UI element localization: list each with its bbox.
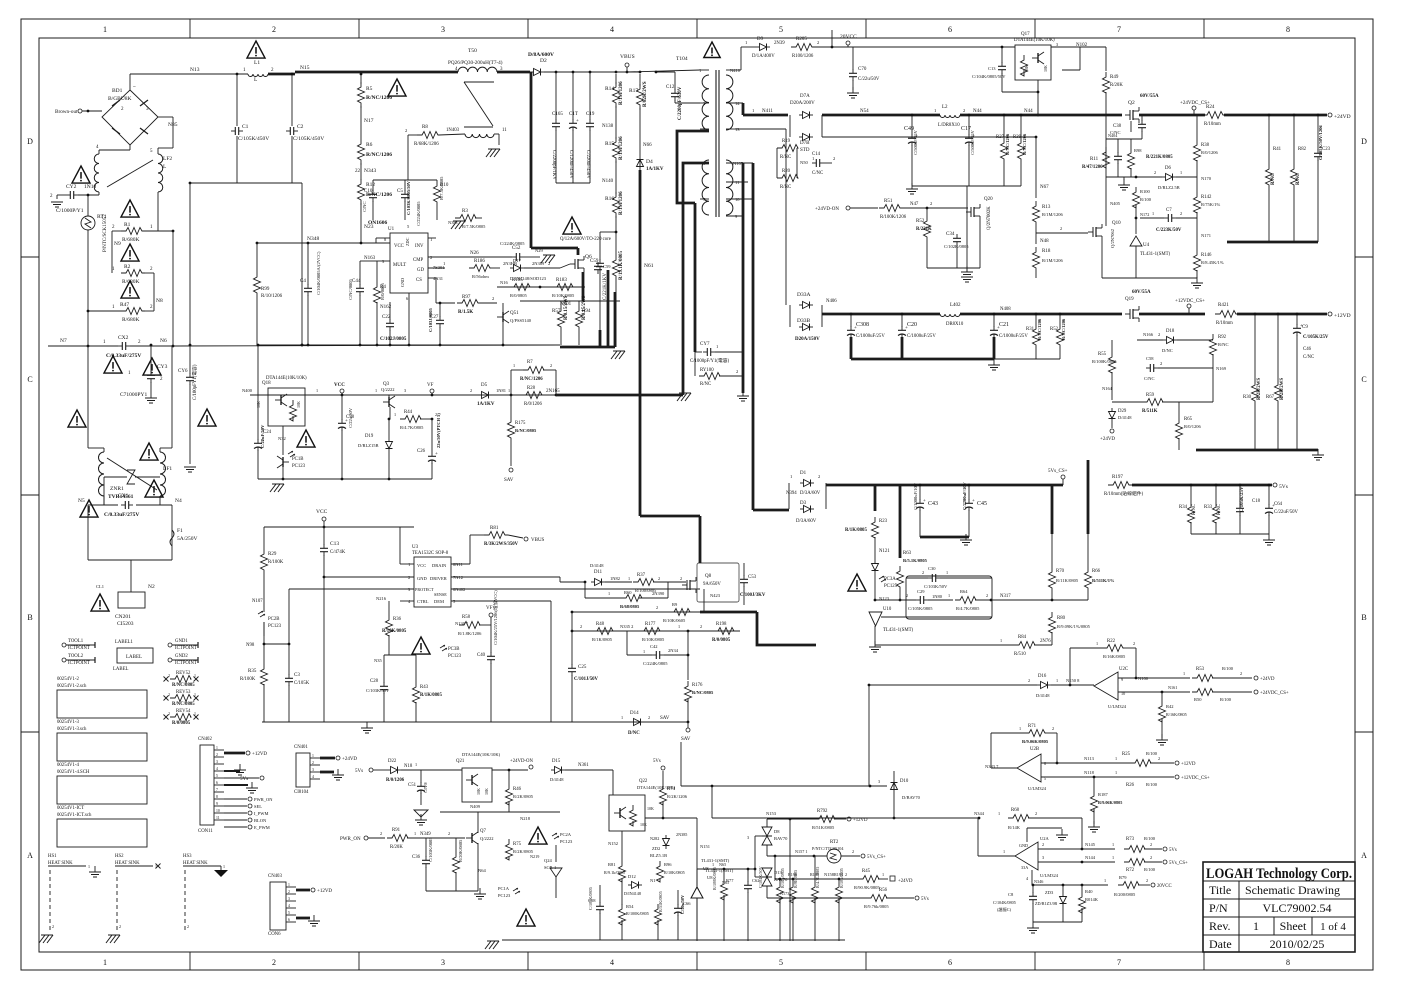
svg-text:R/16K/0805: R/16K/0805 bbox=[1103, 654, 1126, 659]
svg-text:R75: R75 bbox=[513, 842, 522, 847]
svg-text:2: 2 bbox=[187, 924, 189, 929]
svg-text:2: 2 bbox=[1146, 878, 1148, 883]
svg-text:VF: VF bbox=[486, 606, 493, 611]
svg-text:R49: R49 bbox=[1110, 75, 1119, 80]
svg-text:ZD/R1Z3.9B: ZD/R1Z3.9B bbox=[1035, 901, 1057, 906]
svg-text:1: 1 bbox=[882, 872, 884, 877]
svg-text:R18: R18 bbox=[1042, 249, 1051, 254]
svg-text:Q20: Q20 bbox=[984, 197, 993, 202]
svg-text:DTA144E(10K/10K): DTA144E(10K/10K) bbox=[1014, 38, 1055, 43]
svg-text:CY2: CY2 bbox=[66, 184, 77, 190]
svg-text:R/10K/0605: R/10K/0605 bbox=[663, 618, 686, 623]
svg-text:ZD2: ZD2 bbox=[652, 846, 660, 851]
svg-text:RLZ5.1B: RLZ5.1B bbox=[650, 853, 667, 858]
svg-text:D/4148: D/4148 bbox=[590, 563, 604, 568]
svg-text:R39: R39 bbox=[1013, 135, 1022, 140]
svg-text:C/100pFY1(電容): C/100pFY1(電容) bbox=[191, 364, 198, 400]
svg-text:6: 6 bbox=[1044, 761, 1046, 766]
svg-text:R/11K/0805: R/11K/0805 bbox=[1056, 578, 1079, 583]
svg-text:R24: R24 bbox=[1206, 105, 1215, 110]
svg-text:R57: R57 bbox=[552, 309, 561, 314]
svg-text:N216: N216 bbox=[376, 596, 387, 601]
svg-text:+24VDC_CS+: +24VDC_CS+ bbox=[1260, 691, 1289, 696]
svg-text:R98: R98 bbox=[1134, 148, 1142, 153]
svg-text:R6: R6 bbox=[366, 142, 373, 148]
svg-text:R/100K: R/100K bbox=[268, 560, 284, 565]
svg-text:10K: 10K bbox=[640, 822, 647, 827]
svg-text:R/9.1k/0805: R/9.1k/0805 bbox=[604, 870, 625, 875]
svg-text:+12VD: +12VD bbox=[1334, 313, 1351, 319]
svg-text:N9: N9 bbox=[114, 241, 121, 247]
svg-text:R/5.1K/0805: R/5.1K/0805 bbox=[903, 558, 928, 563]
svg-text:ON1606: ON1606 bbox=[368, 220, 388, 226]
svg-text:D/3A/60V: D/3A/60V bbox=[800, 491, 821, 496]
svg-text:1: 1 bbox=[415, 762, 417, 767]
svg-text:1N10: 1N10 bbox=[84, 184, 96, 190]
svg-text:2: 2 bbox=[1158, 332, 1160, 337]
svg-text:U2C: U2C bbox=[1119, 667, 1128, 672]
svg-text:R/0/0805: R/0/0805 bbox=[380, 282, 385, 300]
svg-text:C/103K/50V: C/103K/50V bbox=[924, 584, 948, 589]
svg-text:SAV: SAV bbox=[660, 716, 670, 721]
svg-text:R/14K: R/14K bbox=[1008, 825, 1021, 830]
svg-text:ICTPOINT: ICTPOINT bbox=[68, 661, 90, 666]
svg-text:VCC: VCC bbox=[417, 563, 426, 568]
svg-text:N394: N394 bbox=[786, 491, 797, 496]
svg-text:R59: R59 bbox=[1146, 393, 1155, 398]
svg-text:R/680K: R/680K bbox=[122, 317, 139, 323]
svg-text:C58: C58 bbox=[1146, 356, 1154, 361]
svg-text:R43: R43 bbox=[420, 685, 429, 690]
svg-text:5Vs_CS+: 5Vs_CS+ bbox=[867, 855, 886, 860]
svg-text:R/100: R/100 bbox=[1146, 751, 1158, 756]
svg-text:00254V1-ICT.sch: 00254V1-ICT.sch bbox=[57, 813, 92, 818]
svg-text:R80: R80 bbox=[1057, 616, 1066, 621]
svg-text:R/NC: R/NC bbox=[1271, 173, 1276, 185]
svg-text:HEAT SINK: HEAT SINK bbox=[115, 861, 140, 866]
svg-text:9A/650V: 9A/650V bbox=[703, 582, 721, 587]
svg-text:C/101J/50V: C/101J/50V bbox=[574, 677, 599, 682]
svg-text:N61: N61 bbox=[644, 263, 654, 269]
svg-text:R11: R11 bbox=[1090, 157, 1099, 162]
svg-text:Q17: Q17 bbox=[1021, 32, 1030, 37]
svg-text:5Vs_CS+: 5Vs_CS+ bbox=[1169, 861, 1188, 866]
svg-text:R47: R47 bbox=[120, 302, 129, 308]
svg-text:C/NC: C/NC bbox=[1144, 376, 1155, 381]
svg-text:2: 2 bbox=[700, 624, 702, 629]
svg-text:3: 3 bbox=[1056, 42, 1058, 47]
svg-text:U3: U3 bbox=[412, 545, 419, 550]
svg-text:R205: R205 bbox=[796, 37, 807, 42]
svg-text:C23: C23 bbox=[1322, 147, 1331, 152]
svg-text:4N31: 4N31 bbox=[433, 276, 443, 281]
svg-text:CI5203: CI5203 bbox=[117, 621, 134, 627]
svg-text:2: 2 bbox=[168, 692, 170, 697]
svg-text:5: 5 bbox=[779, 25, 783, 34]
svg-text:R23: R23 bbox=[879, 519, 888, 524]
svg-text:D8: D8 bbox=[774, 829, 780, 834]
svg-text:D20A/200V: D20A/200V bbox=[790, 101, 815, 106]
svg-text:PQ26/PQ30-200uH(T7-4): PQ26/PQ30-200uH(T7-4) bbox=[448, 59, 503, 66]
svg-text:C43: C43 bbox=[928, 501, 938, 507]
svg-text:D/NC: D/NC bbox=[628, 731, 640, 736]
svg-text:B: B bbox=[27, 613, 32, 622]
svg-text:PC123: PC123 bbox=[292, 464, 306, 469]
svg-text:D17: D17 bbox=[513, 258, 521, 263]
svg-text:2: 2 bbox=[1133, 641, 1135, 646]
svg-text:+12VD: +12VD bbox=[252, 752, 267, 757]
svg-text:1: 1 bbox=[513, 363, 515, 368]
svg-text:R014K: R014K bbox=[1085, 897, 1099, 902]
svg-text:TOOL1: TOOL1 bbox=[68, 639, 84, 644]
svg-text:D4: D4 bbox=[646, 159, 653, 165]
svg-text:N409: N409 bbox=[470, 804, 481, 809]
svg-text:1: 1 bbox=[312, 754, 314, 758]
svg-text:D/NC: D/NC bbox=[1162, 348, 1173, 353]
svg-text:R/511K: R/511K bbox=[1142, 409, 1158, 414]
svg-text:10: 10 bbox=[735, 197, 740, 202]
svg-text:R/75K/1%: R/75K/1% bbox=[1201, 202, 1221, 207]
svg-text:R29: R29 bbox=[268, 552, 277, 557]
svg-text:Q22: Q22 bbox=[639, 779, 648, 784]
svg-text:1: 1 bbox=[608, 591, 610, 596]
svg-text:2: 2 bbox=[405, 128, 407, 133]
svg-text:1: 1 bbox=[790, 474, 792, 479]
svg-text:L1: L1 bbox=[254, 60, 260, 66]
svg-text:N171: N171 bbox=[1201, 233, 1211, 238]
svg-text:R/100: R/100 bbox=[1222, 666, 1234, 671]
svg-text:7: 7 bbox=[216, 788, 218, 792]
svg-text:R17: R17 bbox=[629, 88, 638, 94]
svg-text:VF: VF bbox=[427, 383, 434, 388]
svg-text:3: 3 bbox=[441, 958, 445, 967]
svg-text:R70: R70 bbox=[1056, 569, 1065, 574]
svg-text:1: 1 bbox=[414, 831, 416, 836]
svg-text:2: 2 bbox=[492, 296, 494, 301]
svg-text:C/120uF/450V: C/120uF/450V bbox=[568, 150, 573, 179]
svg-text:2: 2 bbox=[168, 673, 170, 678]
svg-text:2: 2 bbox=[852, 849, 854, 854]
svg-text:D1: D1 bbox=[800, 471, 807, 476]
svg-text:+24VD: +24VD bbox=[1334, 114, 1351, 120]
svg-text:VLC79002.54: VLC79002.54 bbox=[1263, 901, 1332, 915]
svg-text:6: 6 bbox=[288, 918, 290, 922]
svg-text:2: 2 bbox=[119, 924, 121, 929]
svg-text:C26: C26 bbox=[417, 449, 426, 454]
svg-text:R5: R5 bbox=[366, 86, 373, 92]
svg-text:1: 1 bbox=[699, 68, 701, 73]
svg-text:R27: R27 bbox=[996, 135, 1005, 140]
svg-text:N47: N47 bbox=[910, 202, 919, 207]
svg-text:PC123: PC123 bbox=[268, 624, 282, 629]
svg-text:R792: R792 bbox=[817, 809, 828, 814]
svg-text:D/4148: D/4148 bbox=[1118, 415, 1132, 420]
svg-text:C/224K/0805: C/224K/0805 bbox=[500, 241, 525, 246]
svg-text:Q18: Q18 bbox=[262, 381, 271, 386]
svg-text:INV: INV bbox=[415, 244, 424, 249]
svg-text:R25: R25 bbox=[1122, 752, 1131, 757]
svg-text:N67: N67 bbox=[1040, 185, 1049, 190]
svg-text:REV52: REV52 bbox=[176, 671, 191, 676]
svg-text:2: 2 bbox=[1035, 811, 1037, 816]
svg-text:R91: R91 bbox=[392, 828, 401, 833]
svg-text:1: 1 bbox=[1253, 919, 1259, 933]
svg-text:R/510: R/510 bbox=[1014, 652, 1026, 657]
svg-text:1: 1 bbox=[1183, 671, 1185, 676]
svg-text:PC3B: PC3B bbox=[448, 647, 459, 652]
svg-text:CX2: CX2 bbox=[118, 335, 129, 341]
svg-text:5Vs: 5Vs bbox=[355, 769, 363, 774]
svg-text:N343: N343 bbox=[364, 168, 376, 174]
svg-text:2: 2 bbox=[1042, 842, 1044, 847]
svg-text:1: 1 bbox=[375, 388, 377, 393]
svg-text:1: 1 bbox=[1152, 211, 1154, 216]
svg-text:C71000PY1: C71000PY1 bbox=[120, 392, 147, 398]
svg-text:2: 2 bbox=[1060, 226, 1062, 231]
svg-text:1: 1 bbox=[1180, 170, 1182, 175]
svg-text:C36: C36 bbox=[412, 855, 421, 860]
svg-text:C9: C9 bbox=[1302, 325, 1308, 330]
svg-text:D/1A/400V: D/1A/400V bbox=[752, 54, 775, 59]
svg-text:00254V1-2: 00254V1-2 bbox=[57, 677, 79, 682]
svg-text:C/1000uF/25V: C/1000uF/25V bbox=[907, 334, 936, 339]
svg-text:N405: N405 bbox=[1110, 201, 1121, 206]
svg-text:R42: R42 bbox=[1166, 704, 1174, 709]
svg-text:C/105K/450V: C/105K/450V bbox=[293, 136, 324, 142]
svg-text:R/4.7K/0805: R/4.7K/0805 bbox=[400, 425, 424, 430]
svg-text:N15: N15 bbox=[300, 65, 310, 71]
svg-text:10K: 10K bbox=[1043, 65, 1048, 72]
svg-text:C20: C20 bbox=[907, 322, 917, 328]
svg-text:N121: N121 bbox=[879, 549, 890, 554]
svg-text:R53: R53 bbox=[1196, 667, 1205, 672]
svg-text:Q/2N7002K: Q/2N7002K bbox=[987, 206, 992, 230]
svg-text:1: 1 bbox=[1019, 726, 1021, 731]
svg-text:1: 1 bbox=[103, 25, 107, 34]
svg-text:P/N: P/N bbox=[1209, 901, 1228, 915]
svg-text:2: 2 bbox=[550, 363, 552, 368]
svg-text:CY7: CY7 bbox=[700, 342, 710, 347]
svg-text:1N403: 1N403 bbox=[446, 128, 460, 133]
svg-text:R/2K/2WS: R/2K/2WS bbox=[1280, 378, 1285, 400]
svg-text:10K: 10K bbox=[476, 788, 481, 795]
svg-text:R/2K/1206: R/2K/1206 bbox=[667, 794, 688, 799]
svg-text:R/221K: R/221K bbox=[916, 227, 932, 232]
svg-text:CI8104: CI8104 bbox=[294, 790, 309, 795]
svg-text:Q21: Q21 bbox=[456, 759, 465, 764]
svg-text:C13: C13 bbox=[988, 66, 996, 71]
svg-text:C/105K/450V: C/105K/450V bbox=[238, 136, 269, 142]
svg-text:CS: CS bbox=[416, 278, 422, 283]
svg-text:CN402: CN402 bbox=[198, 737, 212, 742]
svg-text:1: 1 bbox=[948, 593, 950, 598]
svg-text:2N385: 2N385 bbox=[676, 832, 687, 837]
svg-text:3: 3 bbox=[441, 25, 445, 34]
svg-text:R/100K/0805: R/100K/0805 bbox=[712, 867, 717, 890]
svg-text:+24VD: +24VD bbox=[898, 879, 913, 884]
svg-text:R/47/1206: R/47/1206 bbox=[1082, 165, 1103, 170]
svg-text:R/100: R/100 bbox=[1144, 836, 1156, 841]
svg-text:C/103K/0805: C/103K/0805 bbox=[428, 837, 433, 862]
svg-text:R/51K/0805: R/51K/0805 bbox=[658, 891, 663, 912]
svg-text:R46: R46 bbox=[513, 787, 522, 792]
svg-text:D3: D3 bbox=[800, 501, 807, 506]
svg-text:N150 8: N150 8 bbox=[1066, 678, 1080, 683]
svg-text:R48: R48 bbox=[596, 622, 605, 627]
svg-text:5Vs: 5Vs bbox=[1169, 848, 1177, 853]
svg-text:N118: N118 bbox=[1084, 770, 1095, 775]
svg-text:R/0/1206: R/0/1206 bbox=[1201, 150, 1219, 155]
svg-text:L402: L402 bbox=[950, 303, 961, 308]
svg-text:ZD3: ZD3 bbox=[1045, 890, 1054, 895]
svg-text:PROTECT: PROTECT bbox=[415, 587, 434, 592]
svg-text:R198: R198 bbox=[716, 622, 727, 627]
svg-text:R/NC/0805: R/NC/0805 bbox=[172, 683, 195, 688]
svg-text:7: 7 bbox=[1117, 958, 1121, 967]
svg-text:Title: Title bbox=[1209, 883, 1231, 897]
svg-text:C59: C59 bbox=[603, 264, 611, 269]
svg-text:VBUS: VBUS bbox=[531, 538, 545, 543]
svg-text:LF1: LF1 bbox=[163, 466, 172, 472]
svg-text:1: 1 bbox=[408, 562, 410, 567]
svg-text:1: 1 bbox=[998, 811, 1000, 816]
svg-text:R8: R8 bbox=[422, 125, 428, 130]
svg-text:P/NTC/SCK15057: P/NTC/SCK15057 bbox=[103, 214, 108, 252]
svg-text:R/10K/0805: R/10K/0805 bbox=[664, 870, 685, 875]
svg-text:CX1: CX1 bbox=[118, 493, 129, 499]
svg-text:N170: N170 bbox=[1201, 176, 1212, 181]
svg-text:2: 2 bbox=[658, 576, 660, 581]
svg-text:C13: C13 bbox=[330, 541, 339, 547]
svg-text:N113: N113 bbox=[1084, 756, 1095, 761]
svg-text:R/NC: R/NC bbox=[1296, 173, 1301, 185]
svg-text:1N81: 1N81 bbox=[496, 388, 506, 393]
svg-text:C/104K/0805: C/104K/0805 bbox=[993, 900, 1016, 905]
svg-text:2: 2 bbox=[430, 255, 432, 260]
svg-text:R/100: R/100 bbox=[1144, 867, 1156, 872]
svg-text:2: 2 bbox=[1160, 361, 1162, 366]
svg-text:R/10/1206: R/10/1206 bbox=[261, 294, 283, 299]
svg-text:D19: D19 bbox=[365, 434, 374, 439]
svg-text:C/1000uF/25V: C/1000uF/25V bbox=[999, 334, 1028, 339]
svg-text:GND: GND bbox=[417, 576, 427, 581]
svg-text:N13: N13 bbox=[190, 67, 200, 73]
svg-text:D33B: D33B bbox=[797, 318, 810, 324]
svg-text:1A/1KV: 1A/1KV bbox=[477, 402, 495, 407]
svg-text:CN403: CN403 bbox=[268, 874, 282, 879]
svg-text:8: 8 bbox=[1286, 958, 1290, 967]
svg-text:R/10mm: R/10mm bbox=[1216, 321, 1233, 326]
svg-text:R/100: R/100 bbox=[1140, 197, 1152, 202]
svg-text:3: 3 bbox=[1042, 855, 1044, 860]
svg-text:U2B: U2B bbox=[1030, 747, 1039, 752]
svg-text:R/68K/1206: R/68K/1206 bbox=[414, 142, 439, 147]
svg-text:1: 1 bbox=[1003, 849, 1005, 854]
svg-text:C/105K: C/105K bbox=[294, 681, 310, 686]
svg-text:1A/1KV: 1A/1KV bbox=[646, 167, 664, 172]
svg-text:C/224K/0805: C/224K/0805 bbox=[643, 661, 668, 666]
svg-text:R54: R54 bbox=[626, 904, 634, 909]
svg-text:11: 11 bbox=[502, 128, 507, 133]
svg-text:R/7.5K/0805: R/7.5K/0805 bbox=[439, 176, 444, 200]
svg-text:N317: N317 bbox=[1000, 594, 1011, 599]
svg-text:6N402: 6N402 bbox=[453, 587, 465, 592]
svg-text:10K: 10K bbox=[1024, 65, 1029, 72]
svg-text:C/104K/25V/1206(增加VCC): C/104K/25V/1206(增加VCC) bbox=[492, 590, 499, 645]
svg-text:R1: R1 bbox=[124, 222, 131, 228]
svg-text:N218: N218 bbox=[520, 816, 531, 821]
svg-text:R/3K/2WS/350V: R/3K/2WS/350V bbox=[484, 542, 519, 547]
svg-text:C/105K/25V: C/105K/25V bbox=[1303, 335, 1329, 340]
svg-text:Q/PSS5140: Q/PSS5140 bbox=[510, 318, 532, 323]
svg-text:R/100: R/100 bbox=[1220, 697, 1232, 702]
svg-text:N411: N411 bbox=[762, 109, 773, 114]
svg-text:U/LM324: U/LM324 bbox=[1028, 786, 1047, 791]
svg-text:3: 3 bbox=[216, 760, 218, 764]
svg-text:2: 2 bbox=[580, 624, 582, 629]
svg-text:D16: D16 bbox=[1038, 674, 1047, 679]
svg-text:D18: D18 bbox=[1166, 329, 1175, 334]
svg-text:1N80: 1N80 bbox=[932, 594, 943, 599]
svg-text:N2: N2 bbox=[148, 584, 155, 590]
svg-text:R65: R65 bbox=[1184, 417, 1193, 422]
svg-text:1: 1 bbox=[194, 692, 196, 697]
svg-text:R/20K/0805: R/20K/0805 bbox=[458, 839, 463, 862]
svg-text:CON11: CON11 bbox=[198, 829, 213, 834]
svg-text:2: 2 bbox=[52, 924, 54, 929]
svg-text:HS1: HS1 bbox=[48, 854, 57, 859]
svg-text:D/BAV70: D/BAV70 bbox=[902, 795, 921, 800]
svg-text:1: 1 bbox=[752, 108, 754, 113]
svg-text:R81: R81 bbox=[608, 862, 616, 867]
svg-text:2: 2 bbox=[1150, 855, 1152, 860]
svg-text:Q2: Q2 bbox=[1128, 100, 1135, 106]
svg-text:N406: N406 bbox=[826, 299, 837, 304]
svg-text:R/68/0805: R/68/0805 bbox=[620, 604, 640, 609]
svg-text:R3: R3 bbox=[462, 209, 468, 214]
svg-text:N166: N166 bbox=[1143, 332, 1154, 337]
svg-text:R44: R44 bbox=[404, 410, 413, 415]
svg-text:N404: N404 bbox=[1108, 133, 1118, 138]
svg-text:GND2: GND2 bbox=[175, 654, 188, 659]
svg-text:N348: N348 bbox=[307, 236, 319, 242]
svg-text:R100: R100 bbox=[1140, 189, 1151, 194]
svg-text:GD: GD bbox=[417, 268, 424, 273]
svg-text:C70: C70 bbox=[858, 67, 867, 72]
svg-text:D5: D5 bbox=[481, 383, 488, 388]
svg-text:R92: R92 bbox=[1218, 335, 1227, 340]
svg-text:1 of 4: 1 of 4 bbox=[1320, 921, 1346, 933]
svg-text:C/102K/0805: C/102K/0805 bbox=[944, 244, 969, 249]
svg-text:C46: C46 bbox=[1303, 347, 1312, 352]
svg-text:R58: R58 bbox=[462, 615, 471, 620]
svg-text:PC2A: PC2A bbox=[560, 832, 572, 837]
svg-text:R/10K/0805: R/10K/0805 bbox=[382, 629, 407, 634]
svg-text:Q8: Q8 bbox=[705, 574, 712, 579]
svg-text:C: C bbox=[27, 375, 32, 384]
svg-text:C/2200uF/10V: C/2200uF/10V bbox=[962, 481, 967, 510]
svg-text:R79: R79 bbox=[1119, 875, 1127, 880]
svg-text:TEA1532C SOP-8: TEA1532C SOP-8 bbox=[412, 551, 449, 556]
svg-text:R/1M/1206: R/1M/1206 bbox=[619, 81, 624, 105]
svg-text:C51: C51 bbox=[408, 783, 417, 788]
svg-text:N1: N1 bbox=[650, 878, 656, 883]
svg-text:2: 2 bbox=[680, 576, 682, 581]
svg-text:C/2200pF/630V: C/2200pF/630V bbox=[678, 86, 683, 120]
svg-text:D7B: D7B bbox=[800, 141, 810, 146]
svg-text:4: 4 bbox=[610, 25, 614, 34]
svg-text:C19: C19 bbox=[586, 112, 595, 117]
